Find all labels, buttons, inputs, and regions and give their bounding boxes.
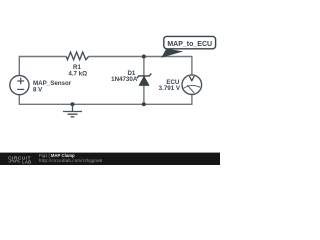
svg-text:1N4730A: 1N4730A <box>111 76 138 83</box>
meter scale arc <box>184 85 200 88</box>
ground <box>63 104 82 117</box>
meter V letter <box>190 77 194 81</box>
footer logo waveform <box>8 160 20 162</box>
node A junction dot top <box>142 55 146 59</box>
wire diode bottom stub <box>143 85 145 104</box>
zener diode D1 <box>137 74 151 79</box>
junction dot bottom <box>142 102 146 106</box>
svg-text:http://circuitlab.com/c/5ggna6: http://circuitlab.com/c/5ggna6 <box>39 158 103 163</box>
svg-text:4.7 kΩ: 4.7 kΩ <box>68 71 87 78</box>
plus sign <box>17 78 24 85</box>
voltmeter ECU <box>182 75 202 95</box>
svg-text:3.791 V: 3.791 V <box>159 85 181 92</box>
net flag MAP_to_ECU <box>164 36 216 48</box>
junction dot ground <box>71 102 75 106</box>
wire diode top stub <box>143 57 145 77</box>
wire voltmeter top lead <box>191 56 193 75</box>
wire bottom rail <box>19 95 192 105</box>
meter needle <box>187 85 194 93</box>
net flag pointer <box>161 49 183 58</box>
svg-text:LAB: LAB <box>22 159 31 164</box>
svg-text:8 V: 8 V <box>33 87 43 94</box>
wire node A to voltmeter <box>144 56 192 58</box>
resistor R1 <box>66 52 88 60</box>
wire top from source to resistor <box>19 57 66 76</box>
footer bar <box>0 153 220 165</box>
minus sign <box>17 88 24 90</box>
svg-text:MAP_to_ECU: MAP_to_ECU <box>167 41 212 48</box>
voltage source V1 <box>10 76 29 95</box>
wire voltmeter bottom lead <box>191 94 193 105</box>
wire resistor to node A <box>89 56 144 58</box>
